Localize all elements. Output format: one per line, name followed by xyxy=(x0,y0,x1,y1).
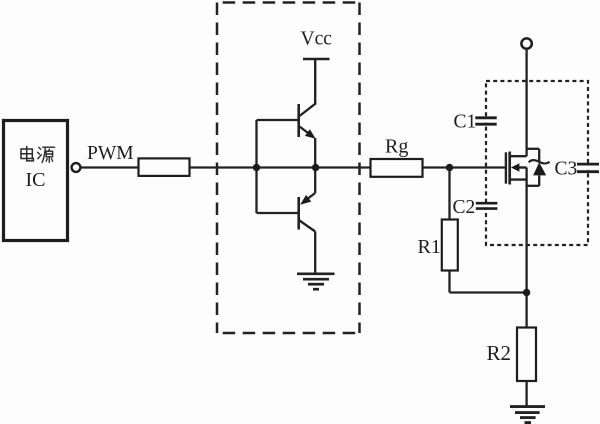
svg-text:Rg: Rg xyxy=(385,136,408,158)
svg-text:PWM: PWM xyxy=(87,143,134,164)
svg-text:IC: IC xyxy=(26,169,46,191)
svg-text:C1: C1 xyxy=(454,112,477,133)
svg-text:C2: C2 xyxy=(453,197,476,218)
svg-text:R1: R1 xyxy=(418,236,441,258)
svg-text:C3: C3 xyxy=(555,159,578,180)
svg-text:Vcc: Vcc xyxy=(301,28,333,49)
svg-text:R2: R2 xyxy=(487,341,512,365)
